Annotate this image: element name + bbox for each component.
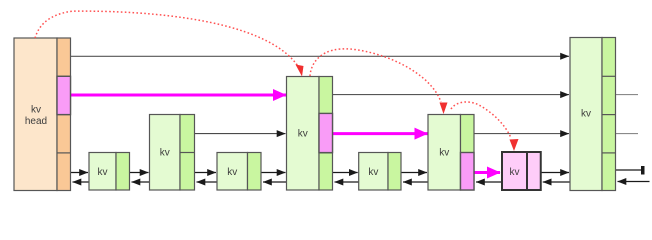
node C: kv level-3 bbox=[287, 77, 333, 191]
wire: level-4 forward pointer head to node F bbox=[71, 55, 570, 57]
wire: level-1 forward node C to node A3 bbox=[333, 172, 358, 174]
svg-text:kv: kv bbox=[31, 105, 41, 116]
wire: level-1 backward from right edge to node F bbox=[618, 181, 650, 183]
svg-text:kv: kv bbox=[227, 167, 237, 178]
wire: level-1 forward node F to nil terminator bbox=[616, 166, 645, 175]
wire: level-2 forward pointer node D to node F bbox=[474, 133, 569, 135]
node A1: kv level-1 bbox=[89, 153, 130, 191]
node C highlighted level cell (magenta) bbox=[319, 113, 333, 152]
wire: level-1 forward node A1 to node B bbox=[130, 172, 149, 174]
wire: level-1 forward head to node A1 bbox=[71, 172, 89, 174]
wire: level-3 stub right of node F bbox=[616, 94, 639, 96]
wire: level-2 forward pointer node B to node C bbox=[195, 133, 286, 135]
node A2: kv level-1 bbox=[217, 153, 261, 191]
wire: level-1 forward node B to node A2 bbox=[195, 172, 217, 174]
node E: target kv node (pink) bbox=[502, 152, 541, 190]
node A3: kv level-1 bbox=[359, 153, 401, 191]
search path arc 1: head top to node C top (red dotted) bbox=[35, 11, 304, 76]
wire: level-1 backward node F to node E bbox=[543, 181, 570, 183]
wire: level-1 forward node A3 to node D bbox=[401, 172, 427, 174]
svg-text:kv: kv bbox=[98, 167, 108, 178]
wire: level-1 backward node C to node A2 bbox=[263, 181, 287, 183]
svg-text:kv: kv bbox=[510, 167, 520, 178]
svg-text:kv: kv bbox=[439, 148, 449, 159]
wire: highlighted level-2 pointer node C to node D (magenta) bbox=[333, 132, 428, 135]
wire: level-1 forward node A2 to node C bbox=[261, 172, 286, 174]
head node: kv head bbox=[14, 38, 71, 191]
node B: kv level-2 bbox=[150, 115, 195, 191]
wire: level-1 backward node B to node A1 bbox=[132, 181, 150, 183]
svg-text:kv: kv bbox=[368, 167, 378, 178]
wire: level-1 backward node D to node A3 bbox=[403, 181, 428, 183]
wire: level-2 stub right of node F bbox=[616, 133, 639, 135]
wire: highlighted level-3 pointer head to node C (magenta) bbox=[71, 94, 287, 97]
svg-text:head: head bbox=[25, 116, 47, 127]
wire: level-1 backward node E to node D bbox=[476, 181, 502, 183]
svg-text:kv: kv bbox=[160, 148, 170, 159]
svg-text:kv: kv bbox=[581, 109, 591, 120]
node D: kv level-2 bbox=[428, 115, 474, 191]
wire: level-1 forward node E to node F bbox=[541, 172, 569, 174]
search path arc 3: node D top to node E top (red dotted) bbox=[451, 102, 519, 151]
svg-text:kv: kv bbox=[298, 129, 308, 140]
wire: level-1 backward node A3 to node C bbox=[335, 181, 359, 183]
node F: kv level-4 bbox=[570, 38, 616, 191]
search path arc 2: node C top to node D top (red dotted) bbox=[310, 49, 448, 114]
wire: level-1 backward node A1 to head bbox=[73, 181, 90, 183]
wire: level-3 forward pointer node C to node F bbox=[333, 94, 570, 96]
wire: highlighted level-1 pointer node D to node E (magenta) bbox=[474, 171, 500, 174]
node D highlighted level cell (magenta) bbox=[461, 153, 475, 191]
wire: level-1 backward node A2 to node B bbox=[197, 181, 218, 183]
head node highlighted level cell (magenta) bbox=[57, 76, 71, 114]
